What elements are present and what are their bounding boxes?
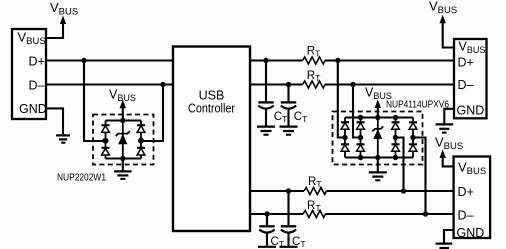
wire GND of left connector (46, 108, 63, 134)
svg-text:D+: D+ (29, 55, 45, 69)
wire D- upper left segment (46, 83, 173, 85)
wire NUP2202W1 to ground (122, 159, 124, 171)
wire bottom rail NUP2202W1 (106, 157, 142, 159)
svg-text:D–: D– (458, 209, 474, 223)
diode branch4 lower NUP4114 (392, 144, 400, 151)
svg-text:USB: USB (199, 89, 225, 103)
diode branch2 upper NUP4114 (357, 122, 365, 129)
wire VBUS arrow shaft into NUP2202W1 (122, 107, 124, 121)
power arrow VBUS NUP4114 (375, 100, 381, 109)
wire D- lower to right connector (325, 213, 453, 215)
wire D+ lower (controller to RT) (250, 190, 304, 192)
zener TVS diode of NUP4114 (372, 126, 383, 138)
capacitor CT lower 1 (259, 226, 274, 246)
node dot left mid NUP2202W1 (103, 138, 109, 144)
power arrow VBUS upper right (440, 15, 446, 23)
ground symbol (lower right connector, clipped) (436, 244, 453, 248)
node dot lower D+ cap tap (286, 188, 291, 193)
left USB connector box (12, 29, 46, 119)
svg-text:D–: D– (458, 78, 474, 92)
diode branch5 lower NUP4114 (409, 144, 417, 151)
wire VBUS stub lower right connector (443, 158, 454, 167)
diode D2b lower-right of NUP2202W1 (137, 148, 145, 155)
node dot D- tap to NUP2202W1 (160, 82, 165, 87)
node dot lower D- tap (423, 211, 428, 216)
ground symbol (upper CT 2) (280, 127, 298, 135)
wire NUP4114 to ground (377, 158, 379, 172)
TVS array U2 NUP4114UPXV6 dashed outline (333, 112, 423, 165)
ground symbol (upper CT 1) (257, 127, 275, 135)
wire top rail NUP2202W1 (106, 119, 142, 121)
wire branch5 NUP4114 (412, 118, 414, 158)
wire D+ upper right segment (controller to RT) (250, 59, 303, 61)
capacitor CT upper 1 (258, 102, 273, 125)
wire D- upper right segment (controller to RT) (250, 83, 303, 85)
wire VBUS stub upper right connector (443, 23, 454, 48)
svg-text:NUP4114UPXV6: NUP4114UPXV6 (386, 100, 449, 111)
zener TVS diode of NUP2202W1 (116, 131, 130, 144)
node dot lower D+ tap (401, 188, 406, 193)
wire lower D- down to CT (266, 214, 268, 225)
wire D- upper to right connector (325, 83, 454, 85)
diode branch4 upper NUP4114 (392, 122, 400, 129)
wire D- tap down to NUP2202W1 right diode pair (141, 85, 163, 142)
node dot D+ tap to NUP2202W1 (81, 58, 86, 63)
wire branch4 mid tap down to lower D+ (396, 138, 404, 192)
svg-text:D–: D– (29, 79, 45, 93)
diode branch5 upper NUP4114 (409, 122, 417, 129)
TVS array U1 NUP2202W1 dashed outline (93, 115, 154, 165)
node dots top rail NUP4114 (358, 115, 398, 120)
power arrow VBUS lower right (440, 150, 446, 159)
wire D+ upper to right connector (325, 59, 454, 61)
wire D- lower (controller to RT) (250, 213, 303, 215)
wire branch5 mid tap down to lower D- (413, 138, 426, 215)
node dot top rail middle NUP2202W1 (120, 118, 125, 123)
capacitor CT lower 2 (281, 226, 296, 246)
resistor RT on lower D+ (304, 188, 326, 195)
node dot D- tap to NUP4114 (350, 82, 355, 87)
node dots bottom rail NUP4114 (358, 155, 398, 160)
wire D+ upper left segment (46, 59, 173, 61)
wire branch4 NUP4114 (395, 118, 397, 158)
resistor RT on lower D- (303, 211, 325, 218)
svg-text:GND: GND (457, 104, 485, 118)
wire VBUS arrow shaft into NUP4114 (377, 107, 379, 118)
diode branch2 lower NUP4114 (357, 144, 365, 151)
wire branch2 NUP4114 (360, 118, 362, 158)
node dot upper D+ cap tap (263, 58, 268, 63)
diode D1a upper-left of NUP2202W1 (102, 125, 110, 132)
wire D+ tap down to NUP2202W1 left diode pair (84, 61, 106, 142)
USB controller box (173, 47, 250, 232)
wire left branch NUP2202W1 (105, 121, 107, 159)
wire bottom rail NUP4114 (345, 156, 413, 158)
power arrow VBUS left (60, 16, 66, 25)
ground symbol (NUP4114) (369, 172, 387, 180)
wire top rail NUP4114 (345, 116, 413, 118)
wire VBUS stub from left connector (46, 23, 63, 38)
node dot bottom rail middle NUP2202W1 (120, 156, 125, 161)
wire GND lower right connector (444, 230, 454, 243)
svg-text:NUP2202W1: NUP2202W1 (57, 173, 106, 184)
ground symbol (lower CT 2, clipped) (280, 246, 298, 248)
node dots mid taps NUP4114 (342, 135, 415, 140)
node dot right mid NUP2202W1 (138, 138, 144, 144)
svg-text:GND: GND (457, 226, 485, 240)
svg-text:GND: GND (19, 102, 47, 116)
wire middle branch NUP2202W1 (122, 121, 124, 159)
svg-text:Controller: Controller (188, 102, 235, 116)
resistor RT on upper D- (303, 81, 325, 88)
resistor RT on upper D+ (303, 57, 325, 64)
node dot upper D- cap tap (286, 82, 291, 87)
diode D2a upper-right of NUP2202W1 (137, 125, 145, 132)
wire GND upper right connector (444, 109, 454, 124)
node dot D+ tap to NUP4114 (335, 58, 340, 63)
diode branch1 upper NUP4114 (341, 122, 349, 129)
upper right USB connector box (454, 39, 487, 118)
wire D+ lower to right connector (326, 190, 453, 192)
diode D1b lower-left of NUP2202W1 (102, 148, 110, 155)
ground symbol (lower CT 1, clipped) (258, 246, 276, 248)
wire D+ tap down into NUP4114 branch1 (338, 61, 345, 138)
power arrow VBUS NUP2202W1 (120, 100, 126, 109)
wire D- tap down into NUP4114 branch2 (353, 85, 361, 138)
node dot lower D- cap tap (264, 211, 269, 216)
ground symbol (upper right connector) (436, 124, 454, 132)
ground symbol (left connector) (56, 135, 70, 142)
wire branch1 NUP4114 (344, 118, 346, 158)
ground symbol (NUP2202W1) (114, 171, 132, 179)
wire middle zener branch NUP4114 (377, 118, 379, 158)
diode branch1 lower NUP4114 (341, 144, 349, 151)
wire upper D+ down to CT (265, 61, 267, 102)
wire upper D- down to CT (287, 85, 289, 102)
svg-text:D+: D+ (458, 185, 474, 199)
capacitor CT upper 2 (281, 102, 296, 125)
wire lower D+ down to CT (crosses D- line) (287, 191, 289, 225)
wire right branch NUP2202W1 (140, 121, 142, 159)
lower right USB connector box (454, 157, 491, 239)
svg-text:D+: D+ (458, 56, 474, 70)
